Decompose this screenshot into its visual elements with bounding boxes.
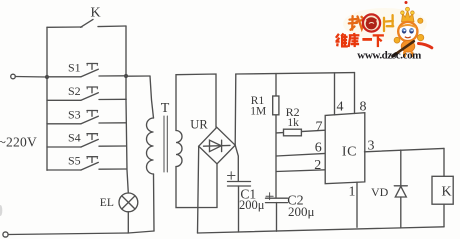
svg-text:EL: EL: [100, 197, 114, 209]
svg-text:S2: S2: [68, 84, 81, 98]
svg-text:~220V: ~220V: [0, 134, 37, 149]
svg-text:4: 4: [337, 100, 344, 115]
svg-text:7: 7: [316, 119, 323, 134]
svg-text:2: 2: [314, 158, 321, 173]
svg-text:UR: UR: [190, 118, 208, 132]
svg-text:S4: S4: [68, 131, 81, 145]
svg-text:S5: S5: [68, 154, 81, 168]
svg-text:K: K: [91, 6, 101, 21]
svg-text:S3: S3: [68, 108, 81, 122]
svg-text:6: 6: [315, 141, 322, 156]
svg-text:1: 1: [349, 185, 356, 200]
svg-text:T: T: [161, 101, 170, 116]
svg-text:S1: S1: [68, 61, 81, 75]
svg-text:200μ: 200μ: [288, 204, 315, 219]
svg-text:VD: VD: [371, 185, 389, 199]
svg-text:IC: IC: [342, 144, 357, 159]
svg-text:3: 3: [368, 139, 375, 154]
svg-text:www.dzsc.com: www.dzsc.com: [357, 49, 421, 61]
svg-text:1M: 1M: [250, 105, 266, 117]
svg-text:200μ: 200μ: [239, 198, 265, 212]
svg-text:K: K: [442, 185, 452, 200]
svg-text:8: 8: [360, 100, 367, 115]
svg-text:1k: 1k: [287, 117, 299, 129]
